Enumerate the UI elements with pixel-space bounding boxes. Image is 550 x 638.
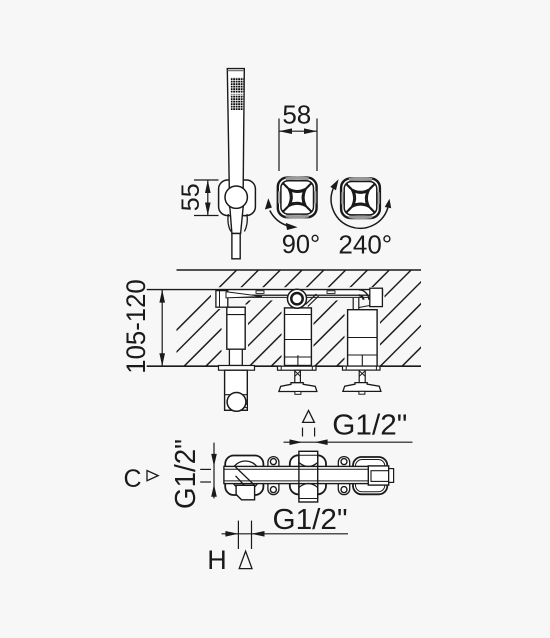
- svg-text:G1/2": G1/2": [170, 439, 202, 509]
- ear E1: [268, 457, 279, 495]
- bracket wedge: [226, 292, 262, 298]
- wall top line: [177, 269, 422, 271]
- dimension 105-120 line: [161, 290, 163, 367]
- mounting rail: [220, 290, 383, 296]
- dimension 55 arrows: [205, 180, 211, 193]
- wall bottom line: [147, 365, 421, 367]
- svg-text:55: 55: [177, 183, 205, 211]
- ear E2: [338, 457, 349, 495]
- valve V3 body: [348, 310, 378, 366]
- marker C triangle: [147, 471, 158, 481]
- svg-text:105-120: 105-120: [121, 279, 151, 374]
- rail slot 2: [327, 291, 335, 294]
- right block B3: [353, 457, 387, 494]
- B2 vertical port: [299, 451, 318, 502]
- svg-text:G1/2": G1/2": [332, 410, 407, 442]
- plan left dimension: [213, 443, 215, 499]
- valve V2 supply stub: [306, 294, 319, 307]
- pipe end cap: [389, 469, 394, 483]
- B1 down port: [236, 485, 255, 500]
- valve V3 stem: [359, 370, 365, 383]
- svg-text:58: 58: [282, 100, 311, 130]
- valve V2 stem: [295, 370, 301, 383]
- holder plate: [219, 180, 256, 216]
- holder circle: [225, 186, 247, 208]
- svg-text:G1/2": G1/2": [273, 504, 348, 536]
- knob K1 front: [278, 178, 317, 218]
- valve V1 elbow ball: [227, 393, 246, 412]
- svg-text:240°: 240°: [338, 230, 392, 260]
- valve V3 anchor block: [370, 288, 383, 306]
- dimension 58 line: [279, 130, 317, 132]
- spray face: [231, 77, 244, 110]
- rotation arc 240: [331, 189, 388, 229]
- stick lower part: [232, 234, 240, 259]
- svg-text:H: H: [207, 545, 227, 575]
- knob K2 front: [341, 178, 380, 218]
- stick top cap: [228, 70, 245, 72]
- left block B1: [225, 456, 263, 496]
- B1 inner circle: [231, 461, 260, 490]
- svg-text:C: C: [123, 465, 141, 493]
- holder clamp arms: [228, 214, 231, 232]
- grip wedge: [230, 207, 243, 234]
- svg-text:90°: 90°: [282, 229, 321, 259]
- valve V3 down pipe: [353, 298, 359, 310]
- dimension 55 line: [207, 180, 209, 216]
- left bracket: [216, 291, 228, 308]
- valve V1 outlet tube: [225, 370, 248, 410]
- valve V3 flange: [343, 366, 381, 370]
- main pipe: [224, 466, 370, 483]
- upper G12 dimension: [284, 441, 413, 443]
- hand shower stick: [227, 69, 244, 207]
- valve V1 flange: [219, 366, 255, 371]
- white clearance zones: [211, 286, 385, 366]
- rotation arc 90: [270, 211, 288, 226]
- lower G12 dimension: [222, 533, 349, 535]
- B2 port side lines over pipe: [298, 455, 300, 498]
- B1 elbow miter: [236, 467, 255, 485]
- dimension 58 extension lines: [278, 119, 280, 172]
- dimension 58 arrows: [279, 128, 292, 134]
- wall hatching: [141, 270, 521, 366]
- valve V1 body (shower outlet): [227, 307, 245, 349]
- valve V2 body: [285, 308, 312, 366]
- dimension 55 extension lines: [194, 180, 219, 216]
- B2 bowtie curves: [299, 463, 318, 467]
- pipe end nut: [368, 466, 388, 485]
- rail lower edge: [222, 296, 380, 298]
- valve V3 cap: [343, 383, 381, 392]
- valve V3 elbow pipe: [359, 290, 369, 300]
- valve V2 cap: [279, 383, 317, 392]
- ear holes: [270, 459, 276, 465]
- middle block B2: [290, 455, 326, 494]
- rail slot 1: [256, 291, 264, 294]
- marker triangle H: [239, 551, 252, 568]
- marker triangle up: [303, 411, 315, 423]
- valve V2 pipe circle: [288, 289, 307, 308]
- valve V2 flange: [278, 366, 317, 370]
- wall surface line: [147, 289, 383, 291]
